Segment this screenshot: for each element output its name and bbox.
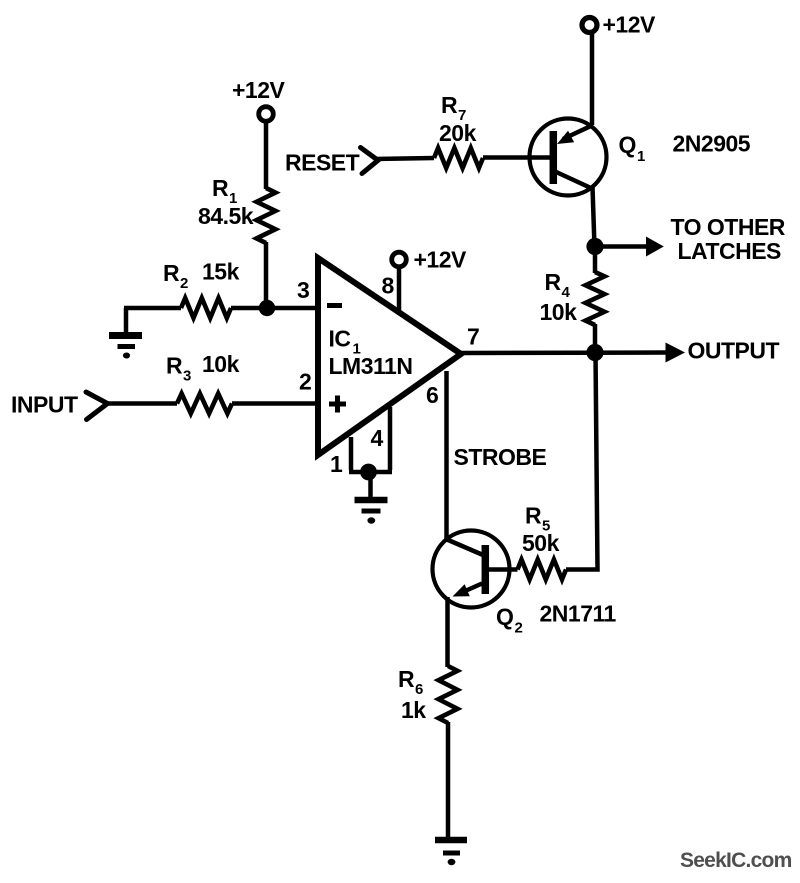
arrowhead OUTPUT bbox=[666, 343, 686, 363]
wire INPUT to R3 bbox=[103, 401, 177, 406]
resistor R2 bbox=[181, 298, 231, 318]
power terminal +12V (top left, feeds R1) bbox=[232, 77, 286, 121]
output node junction dot bbox=[586, 344, 603, 361]
R3 reference label bbox=[166, 353, 191, 385]
non-inverting input plus sign bbox=[329, 396, 346, 413]
svg-text:RESET: RESET bbox=[285, 150, 360, 176]
svg-text:Q: Q bbox=[496, 604, 513, 630]
pin 8 wire to supply bbox=[397, 267, 402, 313]
resistor R3 bbox=[177, 394, 232, 414]
pin 7 output wire from apex to OUTPUT arrow bbox=[461, 350, 668, 355]
power terminal +12V (op-amp pin 8) bbox=[392, 247, 467, 273]
inverting input minus sign bbox=[327, 303, 342, 308]
svg-text:2: 2 bbox=[515, 620, 523, 637]
wire R3 to op-amp pin 2 bbox=[232, 401, 319, 406]
svg-text:R: R bbox=[441, 92, 458, 118]
svg-text:4: 4 bbox=[371, 425, 384, 451]
resistor R6 bbox=[439, 666, 458, 723]
svg-text:+12V: +12V bbox=[414, 247, 468, 273]
R2 reference label bbox=[163, 260, 188, 292]
TO OTHER LATCHES net label bbox=[671, 214, 786, 264]
wire R4 to output node bbox=[593, 324, 598, 353]
op-amp U1 (IC1 LM311N) triangle body bbox=[318, 258, 461, 455]
svg-text:+12V: +12V bbox=[232, 77, 286, 103]
R5 reference label bbox=[525, 503, 550, 535]
R4 reference label bbox=[545, 269, 571, 301]
IC1 reference label bbox=[329, 326, 361, 358]
svg-text:Q: Q bbox=[619, 132, 636, 158]
ground symbol (bottom, below R6) bbox=[435, 840, 467, 865]
svg-text:R: R bbox=[212, 175, 229, 201]
ground symbol (op-amp pins 1/4) bbox=[355, 472, 388, 524]
wire output node down to R5 bbox=[566, 353, 598, 570]
pin 6 strobe wire down to Q2 bbox=[444, 371, 449, 540]
pin 4 wire bbox=[388, 407, 393, 470]
svg-text:INPUT: INPUT bbox=[11, 392, 78, 418]
RESET connector chevron bbox=[285, 148, 378, 176]
svg-text:R: R bbox=[398, 666, 415, 692]
R7 reference label bbox=[441, 92, 466, 124]
resistor R7 bbox=[434, 148, 483, 168]
svg-text:1k: 1k bbox=[401, 697, 426, 723]
svg-text:6: 6 bbox=[415, 681, 423, 698]
svg-text:2: 2 bbox=[180, 275, 188, 292]
svg-text:8: 8 bbox=[382, 273, 395, 299]
svg-text:R: R bbox=[163, 260, 180, 286]
svg-text:STROBE: STROBE bbox=[454, 444, 547, 470]
transistor Q1 (PNP 2N2905) bbox=[530, 119, 607, 196]
wire RESET to R7 bbox=[374, 158, 434, 159]
svg-text:10k: 10k bbox=[540, 299, 578, 325]
svg-text:R: R bbox=[545, 269, 562, 295]
wire R2 to op-amp pin 3, through node A bbox=[231, 306, 319, 311]
wire Q2 emitter down to R6 bbox=[445, 597, 450, 667]
wire bracket joining pins 1 and 4 bbox=[349, 470, 392, 475]
R1 reference label bbox=[212, 175, 237, 207]
arrowhead TO OTHER LATCHES bbox=[646, 237, 664, 257]
resistor R4 bbox=[586, 272, 605, 325]
wire R7 to Q1 base bbox=[483, 155, 550, 160]
svg-text:3: 3 bbox=[183, 368, 191, 385]
svg-text:1: 1 bbox=[330, 451, 343, 477]
svg-text:OUTPUT: OUTPUT bbox=[688, 338, 780, 364]
wire R5 to Q2 base bbox=[489, 567, 518, 572]
svg-text:IC: IC bbox=[329, 326, 351, 352]
svg-text:2N1711: 2N1711 bbox=[540, 601, 617, 627]
svg-text:LM311N: LM311N bbox=[329, 353, 413, 379]
svg-text:50k: 50k bbox=[522, 530, 560, 556]
svg-text:2N2905: 2N2905 bbox=[673, 131, 751, 157]
svg-text:6: 6 bbox=[426, 382, 439, 408]
INPUT connector chevron bbox=[11, 392, 108, 420]
svg-text:TO OTHER: TO OTHER bbox=[671, 214, 786, 240]
wire Q1 emitter up to +12V bbox=[590, 34, 595, 125]
resistor R1 bbox=[257, 188, 276, 243]
node B junction dot (Q1 collector / R4 / latch arrow) bbox=[586, 238, 603, 255]
wire Q1 collector down to node B bbox=[593, 187, 595, 247]
svg-text:1: 1 bbox=[637, 148, 645, 165]
ground symbol (left, at R2) bbox=[109, 308, 142, 359]
svg-text:3: 3 bbox=[297, 277, 310, 303]
pin 1 wire bbox=[349, 437, 354, 470]
wire ground to R2 bbox=[124, 306, 181, 311]
wire node B to R4 bbox=[593, 247, 598, 274]
wire R6 down to ground bbox=[446, 722, 451, 839]
wire node B to latches arrow bbox=[595, 244, 650, 249]
svg-text:LATCHES: LATCHES bbox=[678, 238, 782, 264]
svg-text:R: R bbox=[166, 353, 183, 379]
svg-text:2: 2 bbox=[299, 369, 312, 395]
R6 reference label bbox=[398, 666, 423, 698]
transistor Q2 (NPN 2N1711) bbox=[433, 531, 510, 608]
svg-text:7: 7 bbox=[467, 324, 480, 350]
svg-text:20k: 20k bbox=[439, 120, 477, 146]
Q1 reference label bbox=[619, 132, 646, 166]
resistor R5 bbox=[518, 560, 567, 580]
svg-text:84.5k: 84.5k bbox=[198, 203, 254, 229]
power terminal +12V (top right, Q1 emitter) bbox=[582, 12, 656, 38]
svg-text:SeekIC.com: SeekIC.com bbox=[680, 849, 792, 872]
svg-text:+12V: +12V bbox=[603, 12, 657, 38]
wire from R1 down to node A bbox=[264, 242, 269, 308]
node junction dot (pins 1+4 to ground) bbox=[360, 464, 377, 481]
Q2 reference label bbox=[496, 604, 523, 637]
wire from +12V terminal down to R1 bbox=[264, 122, 269, 190]
svg-text:15k: 15k bbox=[202, 259, 240, 285]
svg-text:R: R bbox=[525, 503, 542, 529]
node A junction dot (R1/R2/pin3) bbox=[259, 300, 275, 316]
svg-text:10k: 10k bbox=[202, 351, 240, 377]
